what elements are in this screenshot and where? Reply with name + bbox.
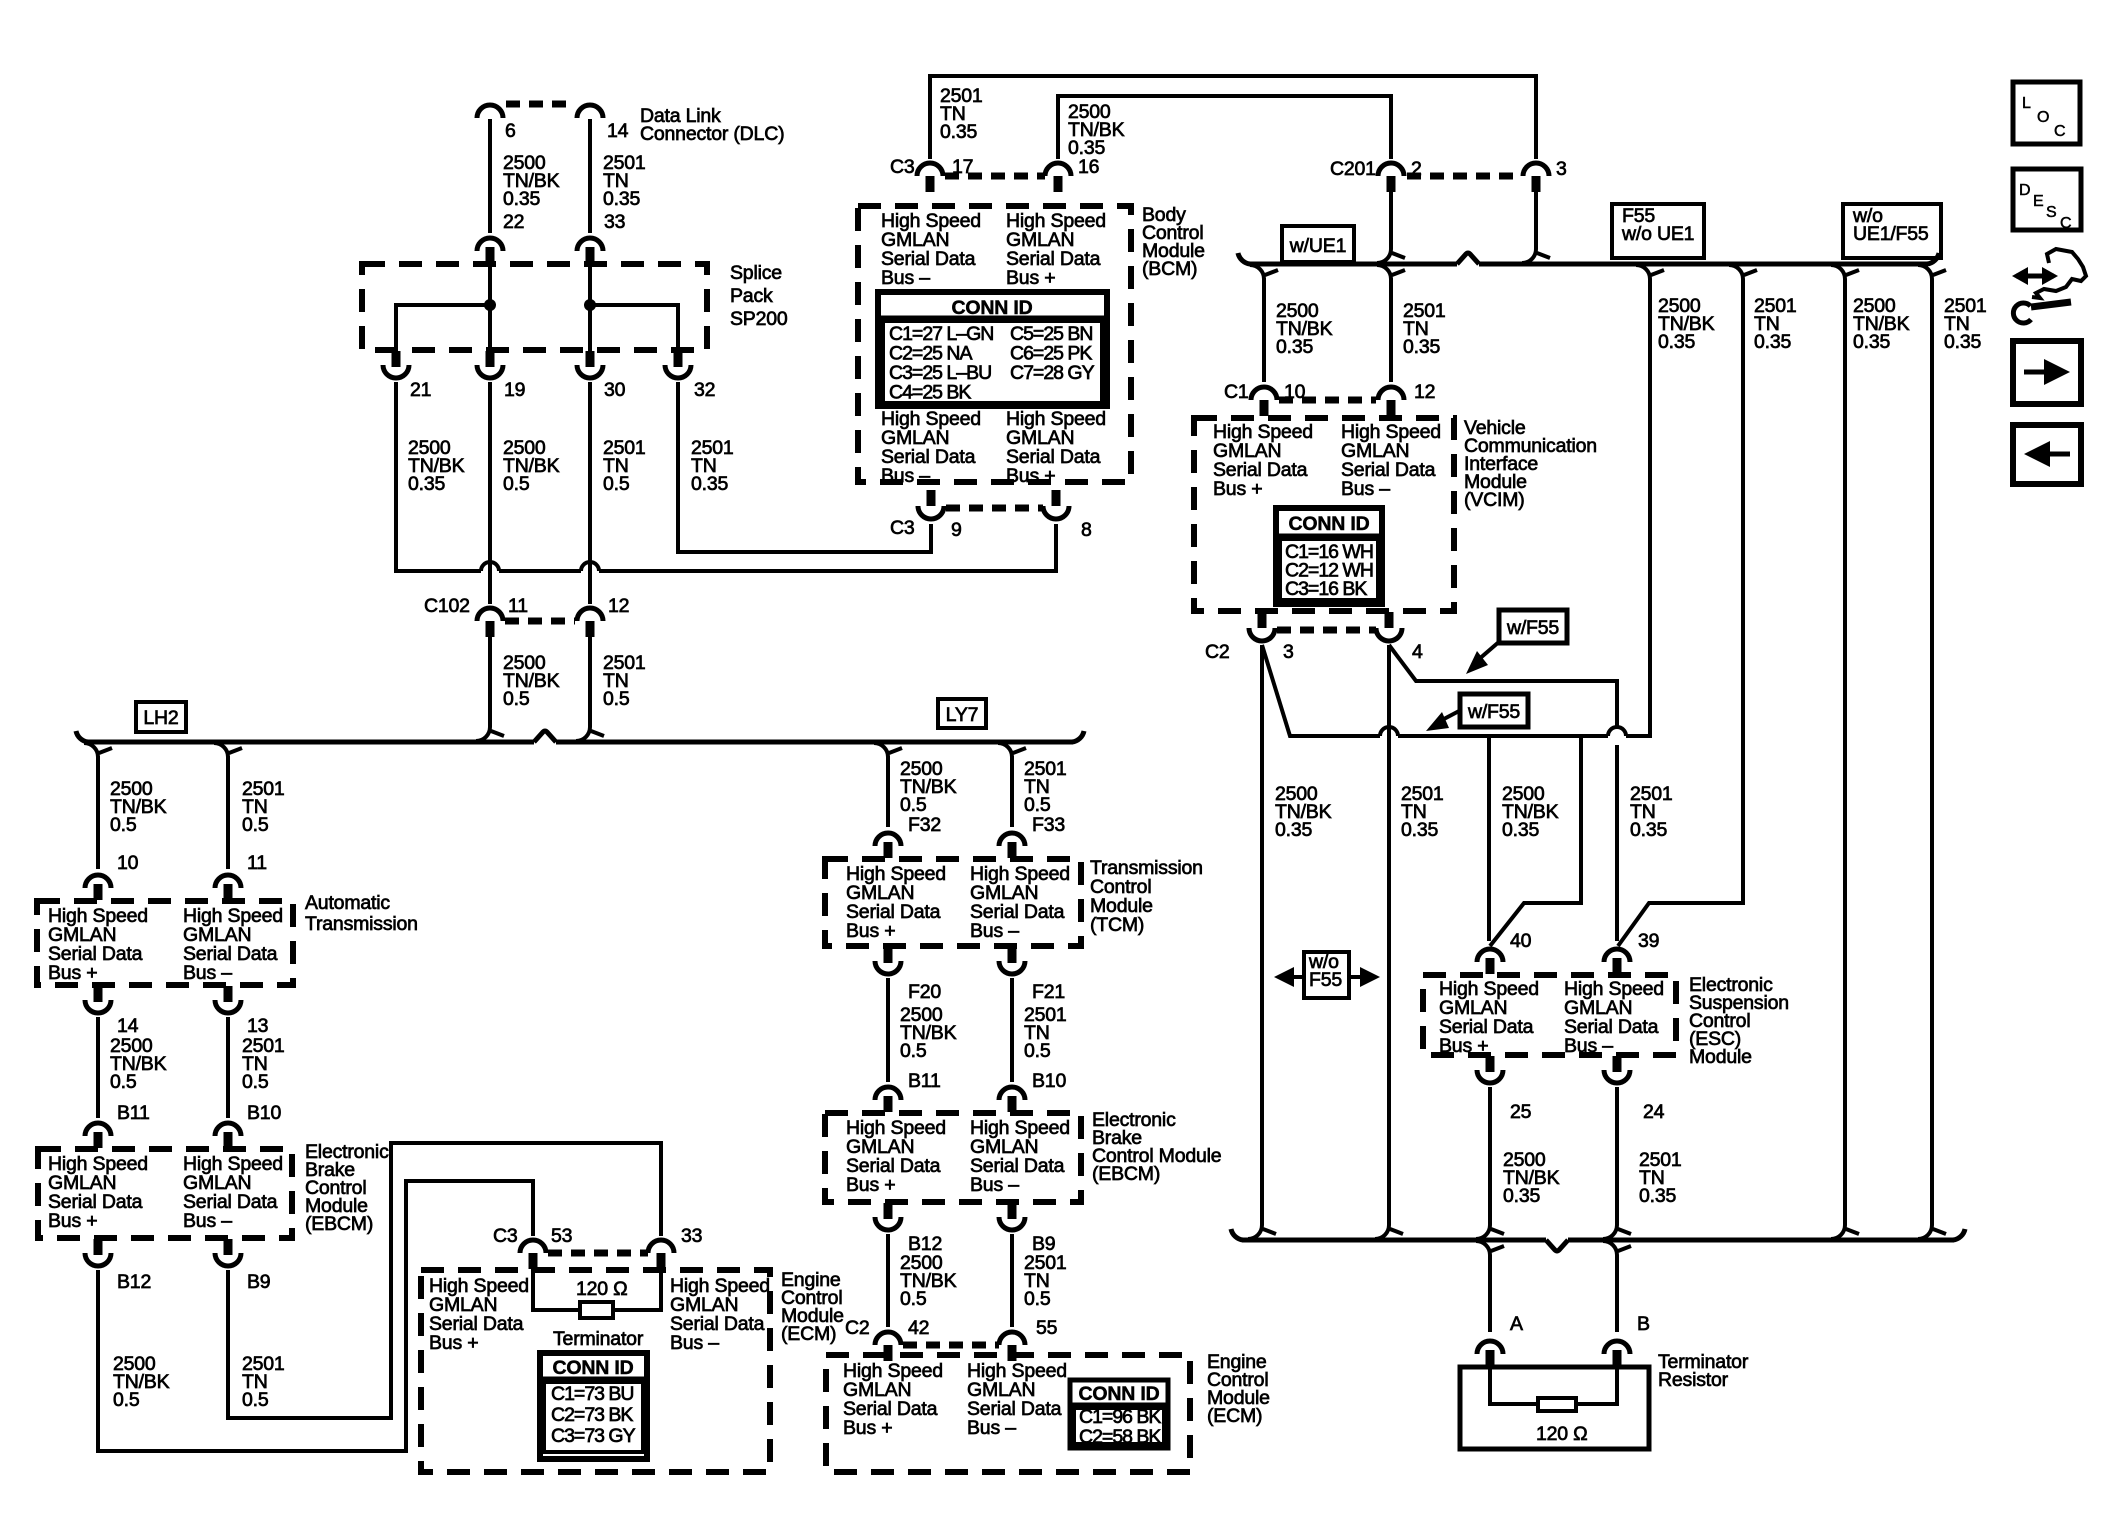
wire 2500 SP200-19 to C102-11 bbox=[488, 382, 492, 604]
svg-text:B10: B10 bbox=[247, 1102, 281, 1124]
connector EBCM pin B9 mid bbox=[1008, 1203, 1017, 1219]
arrow w/F55 upper bbox=[1478, 641, 1500, 660]
svg-text:0.5: 0.5 bbox=[603, 473, 630, 495]
connector ESC pin 25 bbox=[1486, 1056, 1495, 1072]
wire 2501 bus to AT-11 bbox=[226, 756, 230, 869]
svg-text:3: 3 bbox=[1283, 641, 1294, 663]
module ESC box bbox=[1423, 975, 1676, 1055]
svg-text:11: 11 bbox=[508, 595, 528, 617]
svg-text:32: 32 bbox=[694, 379, 715, 401]
svg-text:0.35: 0.35 bbox=[408, 473, 446, 495]
connector ECM C2 pin 55 bbox=[999, 1332, 1025, 1345]
wire 2500 ESC-25 to bottom bus bbox=[1488, 1087, 1492, 1225]
svg-text:LY7: LY7 bbox=[946, 704, 979, 726]
wire 2501 TCM-F21 to EBCM-B10 bbox=[1010, 978, 1014, 1082]
svg-text:C3: C3 bbox=[493, 1225, 518, 1247]
connector ECM C3 pin 33 bbox=[648, 1240, 674, 1253]
wire terminator A to resistor bbox=[1490, 1368, 1538, 1404]
splice pack SP200 box bbox=[362, 264, 707, 350]
svg-text:B11: B11 bbox=[117, 1102, 150, 1124]
label box w/o UE1/F55 bbox=[1843, 204, 1941, 258]
svg-text:(EBCM): (EBCM) bbox=[1092, 1163, 1160, 1185]
svg-text:Bus –: Bus – bbox=[183, 962, 232, 984]
svg-text:C: C bbox=[2060, 215, 2072, 232]
connector SP200 pin 22 bbox=[477, 238, 503, 251]
svg-text:C201: C201 bbox=[1330, 158, 1376, 180]
connector EBCM pin B10 mid bbox=[999, 1087, 1025, 1100]
connector EBCM pin B11 bbox=[85, 1123, 111, 1136]
svg-text:13: 13 bbox=[247, 1015, 268, 1037]
hook VCIM-3 at bottom bus bbox=[1248, 1225, 1262, 1239]
svg-text:B9: B9 bbox=[247, 1271, 270, 1293]
connector BCM C3 pin 16 bbox=[1045, 163, 1071, 176]
wire SP200 22 stub bbox=[488, 263, 492, 305]
hook TCM-F32 at bus bbox=[874, 743, 888, 757]
connector EBCM pin B10 bbox=[215, 1123, 241, 1136]
svg-text:0.5: 0.5 bbox=[900, 1040, 927, 1062]
connector ESC pin 40 bbox=[1477, 949, 1503, 962]
module EBCM mid box bbox=[825, 1113, 1081, 1202]
wire 2500 AT-14 to EBCM-B11 bbox=[96, 1017, 100, 1118]
svg-text:Terminator: Terminator bbox=[553, 1328, 644, 1350]
svg-text:Bus +: Bus + bbox=[846, 920, 895, 942]
connector ECM C3 pin 53 bbox=[520, 1240, 546, 1253]
svg-text:40: 40 bbox=[1510, 930, 1532, 952]
hook C201-2 at bus bbox=[1377, 249, 1391, 263]
svg-text:C1: C1 bbox=[1224, 381, 1249, 403]
svg-text:Bus –: Bus – bbox=[970, 1174, 1019, 1196]
wire SP200 19 stub bbox=[488, 305, 492, 351]
svg-text:(EBCM): (EBCM) bbox=[305, 1213, 373, 1235]
wire 2501 bus to TCM-F33 bbox=[1010, 756, 1014, 827]
module VCIM box bbox=[1194, 418, 1454, 611]
svg-text:Bus +: Bus + bbox=[429, 1332, 478, 1354]
wire 2501 ESC-24 to bottom bus bbox=[1615, 1087, 1619, 1225]
svg-text:O: O bbox=[2037, 109, 2049, 126]
connector BCM C3 dashed face bbox=[945, 173, 1045, 180]
svg-text:C102: C102 bbox=[424, 595, 470, 617]
svg-text:CONN ID: CONN ID bbox=[952, 297, 1033, 319]
module Automatic Transmission box bbox=[37, 901, 293, 985]
label box w/o F55 bbox=[1304, 952, 1349, 998]
svg-text:CONN ID: CONN ID bbox=[1289, 513, 1370, 535]
connector C201 pin 3 bbox=[1523, 163, 1549, 176]
wire 2501 SP200-32 to BCM-9 bbox=[678, 382, 931, 552]
connector ECM C2 pin 42 bbox=[875, 1332, 901, 1345]
svg-text:Bus –: Bus – bbox=[881, 465, 930, 487]
CONN ID table ECM right bbox=[1070, 1380, 1168, 1448]
label box LH2 bbox=[136, 702, 186, 732]
junction SP200 2501 bbox=[584, 299, 596, 311]
icon arrow left box bbox=[2013, 425, 2081, 484]
svg-text:22: 22 bbox=[503, 211, 524, 233]
arrow w/F55 lower bbox=[1442, 710, 1461, 720]
svg-text:Bus –: Bus – bbox=[670, 1332, 719, 1354]
svg-text:0.5: 0.5 bbox=[110, 1071, 137, 1093]
connector EBCM pin B9 bbox=[224, 1239, 233, 1255]
svg-text:9: 9 bbox=[951, 519, 962, 541]
svg-text:SP200: SP200 bbox=[730, 308, 788, 330]
wire 2501 BCM-17 to C201-3 bbox=[930, 76, 1536, 159]
wire 2501 drop to ESC-39 jog bbox=[1618, 279, 1743, 946]
module ECM left box bbox=[421, 1270, 770, 1472]
connector AT pin 11 bbox=[215, 875, 241, 888]
connector SP200 pin 33 bbox=[577, 238, 603, 251]
hook 2501 drop at bus bbox=[1729, 265, 1743, 279]
module TCM box bbox=[825, 859, 1081, 946]
svg-text:C3: C3 bbox=[890, 156, 915, 178]
wire 2501 bus to VCIM-12 bbox=[1389, 278, 1393, 382]
hop w/F55 2500 over VCIM-4 wire bbox=[1380, 727, 1398, 736]
resistor 120 ohm terminator bbox=[1538, 1398, 1576, 1411]
svg-text:w/F55: w/F55 bbox=[1506, 617, 1559, 639]
wire 2501 EBCM-B9 to ECM-55 bbox=[1010, 1234, 1014, 1327]
wire 2500 bus to AT-10 bbox=[96, 756, 100, 869]
connector SP200 pin 19 bbox=[486, 351, 495, 367]
terminator resistor box bbox=[1460, 1367, 1649, 1449]
icon hand with arrow and wrench bbox=[2016, 274, 2054, 279]
connector ECM C3 dashed face bbox=[548, 1250, 648, 1257]
connector AT pin 10 bbox=[85, 875, 111, 888]
wire 2500 SP200-21 to BCM-8 bbox=[396, 382, 481, 571]
svg-text:C2=58 BK: C2=58 BK bbox=[1079, 1426, 1161, 1448]
svg-text:B: B bbox=[1637, 1313, 1650, 1335]
svg-text:Bus +: Bus + bbox=[1006, 267, 1055, 289]
wire 2501 C102-12 to LH2 bus bbox=[588, 637, 592, 727]
label box w/F55 lower bbox=[1460, 694, 1528, 727]
hop w/F55 2500 over 2501 vertical bbox=[1608, 727, 1626, 736]
wire 2500 hop over C102-12 bbox=[581, 562, 599, 571]
svg-text:E: E bbox=[2033, 193, 2044, 210]
svg-text:F20: F20 bbox=[908, 981, 941, 1003]
svg-text:21: 21 bbox=[410, 379, 431, 401]
hook VCIM-4 at bottom bus bbox=[1375, 1225, 1389, 1239]
svg-text:w/F55: w/F55 bbox=[1467, 701, 1520, 723]
svg-text:0.35: 0.35 bbox=[1275, 819, 1313, 841]
wire 2500 branch to ESC-40 bbox=[1487, 736, 1491, 941]
connector SP200 pin 21 bbox=[392, 351, 401, 367]
wire 2501 VCIM-4 to bottom bus bbox=[1387, 645, 1391, 1225]
connector AT pin 13 bbox=[224, 986, 233, 1002]
hook 2501 wo drop top bbox=[1918, 265, 1932, 279]
wire ECM-53 to terminator bbox=[533, 1269, 580, 1310]
svg-text:39: 39 bbox=[1638, 930, 1659, 952]
hook 2500 wo drop bottom bbox=[1831, 1225, 1845, 1239]
connector VCIM C1 pin 10 bbox=[1251, 387, 1277, 400]
svg-text:Bus –: Bus – bbox=[970, 920, 1019, 942]
icon LOC box bbox=[2013, 82, 2080, 144]
connector C102 dashed face bbox=[505, 618, 575, 625]
svg-text:C: C bbox=[2054, 123, 2066, 140]
svg-text:B12: B12 bbox=[117, 1271, 151, 1293]
connector terminator pin B bbox=[1604, 1341, 1630, 1354]
svg-text:0.35: 0.35 bbox=[1853, 331, 1891, 353]
wire SP200 30 stub bbox=[588, 305, 592, 351]
svg-text:42: 42 bbox=[908, 1317, 929, 1339]
bus bottom bbox=[1242, 1238, 1546, 1243]
hook C102-11 at bus bbox=[476, 727, 490, 741]
svg-text:S: S bbox=[2046, 204, 2057, 221]
svg-text:0.5: 0.5 bbox=[603, 688, 630, 710]
svg-text:C2: C2 bbox=[845, 1317, 870, 1339]
wire 2501 DLC-14 to SP200-33 bbox=[588, 119, 592, 233]
hook ESC-25 at bottom bus bbox=[1476, 1225, 1490, 1239]
svg-text:Bus –: Bus – bbox=[881, 267, 930, 289]
svg-text:CONN ID: CONN ID bbox=[553, 1357, 634, 1379]
wire 2500 jog to ESC-40 bbox=[1490, 736, 1581, 946]
svg-text:0.35: 0.35 bbox=[1403, 336, 1441, 358]
svg-text:(VCIM): (VCIM) bbox=[1464, 489, 1525, 511]
wire C201-3 to bus bbox=[1534, 192, 1538, 249]
connector C102 pin 12 bbox=[577, 608, 603, 621]
hook C102-12 at bus bbox=[576, 727, 590, 741]
connector VCIM C2 pin 3 bbox=[1258, 612, 1267, 628]
wire 2500 segment to BCM-8 bbox=[599, 524, 1056, 571]
hook 2501 wo drop bottom bbox=[1918, 1225, 1932, 1239]
svg-text:Module: Module bbox=[1689, 1046, 1752, 1068]
svg-text:0.5: 0.5 bbox=[1024, 794, 1051, 816]
connector VCIM C1 dashed face bbox=[1279, 397, 1376, 404]
svg-text:(BCM): (BCM) bbox=[1142, 258, 1197, 280]
svg-text:Resistor: Resistor bbox=[1658, 1369, 1729, 1391]
wire 2500 BCM-16 to C201-2 bbox=[1058, 96, 1391, 159]
hook AT-10 at bus bbox=[84, 743, 98, 757]
wire 2500 segment bbox=[499, 569, 581, 573]
connector SP200 pin 30 bbox=[586, 351, 595, 367]
svg-text:Transmission: Transmission bbox=[305, 913, 418, 935]
svg-text:C1=73 BU: C1=73 BU bbox=[551, 1383, 634, 1405]
svg-text:120 Ω: 120 Ω bbox=[1536, 1423, 1588, 1445]
wire 2500 w/o UE1/F55 drop bbox=[1843, 279, 1847, 1225]
label box w/F55 upper bbox=[1499, 610, 1567, 643]
svg-text:Bus –: Bus – bbox=[183, 1210, 232, 1232]
arrow w/o F55 double bbox=[1290, 975, 1304, 979]
connector ESC pin 24 bbox=[1613, 1056, 1622, 1072]
svg-text:0.35: 0.35 bbox=[691, 473, 729, 495]
svg-text:Bus +: Bus + bbox=[1213, 478, 1262, 500]
wire 2500 hop over C102-11 bbox=[481, 562, 499, 571]
icon arrow right box bbox=[2013, 341, 2081, 404]
connector BCM C3 bottom dashed face bbox=[946, 505, 1043, 512]
svg-text:0.35: 0.35 bbox=[940, 121, 978, 143]
connector EBCM pin B12 bbox=[94, 1239, 103, 1255]
connector DLC pin 6 bbox=[477, 105, 503, 118]
svg-text:0.35: 0.35 bbox=[603, 188, 641, 210]
wire SP200 33 stub bbox=[588, 263, 592, 305]
svg-text:Automatic: Automatic bbox=[305, 892, 390, 914]
wire 2501 w/o UE1/F55 drop bbox=[1930, 279, 1934, 1225]
hook TCM-F33 at bus bbox=[998, 743, 1012, 757]
connector ECM C2 dashed face bbox=[903, 1342, 999, 1349]
hook C201-3 at bus bbox=[1522, 249, 1536, 263]
svg-text:w/UE1: w/UE1 bbox=[1289, 235, 1346, 257]
svg-text:3: 3 bbox=[1556, 158, 1567, 180]
connector EBCM pin B11 mid bbox=[875, 1087, 901, 1100]
svg-text:0.35: 0.35 bbox=[1944, 331, 1982, 353]
bus LH2/LY7 bbox=[87, 740, 534, 745]
wire bus to terminator B bbox=[1615, 1255, 1619, 1332]
svg-text:C3=73 GY: C3=73 GY bbox=[551, 1425, 636, 1447]
svg-text:0.5: 0.5 bbox=[110, 814, 137, 836]
svg-text:25: 25 bbox=[1510, 1101, 1532, 1123]
svg-text:w/o UE1: w/o UE1 bbox=[1621, 223, 1694, 245]
hook 2500 wo drop top bbox=[1831, 265, 1845, 279]
wire SP200 2501 internal bbox=[590, 305, 678, 349]
connector C102 pin 11 bbox=[477, 608, 503, 621]
wire w/F55 2500 mid bbox=[1398, 734, 1608, 738]
svg-text:Bus –: Bus – bbox=[967, 1417, 1016, 1439]
svg-text:LH2: LH2 bbox=[143, 707, 178, 729]
svg-text:53: 53 bbox=[551, 1225, 572, 1247]
hook 2500 drop at bus bbox=[1636, 265, 1650, 279]
connector SP200 pin 32 bbox=[674, 351, 683, 367]
wire w/F55 2501 from VCIM-4 bbox=[1389, 645, 1617, 727]
svg-text:Splice: Splice bbox=[730, 262, 782, 284]
connector ESC pin 39 bbox=[1604, 949, 1630, 962]
label box LY7 bbox=[938, 699, 986, 728]
connector VCIM C2 dashed face bbox=[1277, 627, 1376, 634]
CONN ID table VCIM bbox=[1276, 508, 1382, 604]
svg-text:Bus –: Bus – bbox=[1564, 1035, 1613, 1057]
module EBCM left box bbox=[38, 1149, 292, 1238]
svg-text:CONN ID: CONN ID bbox=[1079, 1383, 1160, 1405]
wire terminator B to resistor bbox=[1576, 1368, 1617, 1404]
wire ECM-33 to terminator bbox=[613, 1269, 661, 1310]
svg-text:Bus +: Bus + bbox=[1439, 1035, 1488, 1057]
svg-text:4: 4 bbox=[1412, 641, 1423, 663]
svg-text:(TCM): (TCM) bbox=[1090, 914, 1144, 936]
svg-text:0.35: 0.35 bbox=[1754, 331, 1792, 353]
svg-text:D: D bbox=[2019, 182, 2031, 199]
svg-text:0.5: 0.5 bbox=[503, 688, 530, 710]
svg-text:B10: B10 bbox=[1032, 1070, 1066, 1092]
connector terminator pin A bbox=[1477, 1341, 1503, 1354]
wire 2500 bus to TCM-F32 bbox=[886, 756, 890, 827]
label box F55 w/o UE1 bbox=[1612, 204, 1704, 258]
svg-text:Bus –: Bus – bbox=[1341, 478, 1390, 500]
wire bus to terminator A bbox=[1488, 1255, 1492, 1332]
connector TCM pin F21 bbox=[1008, 947, 1017, 963]
resistor 120 ohm terminator ECM bbox=[580, 1302, 613, 1318]
connector DLC dashed face bbox=[506, 101, 574, 108]
wire w/F55 2500 to top drop bbox=[1626, 279, 1650, 736]
svg-text:12: 12 bbox=[1414, 381, 1435, 403]
svg-text:A: A bbox=[1510, 1313, 1523, 1335]
svg-text:6: 6 bbox=[505, 120, 516, 142]
svg-text:14: 14 bbox=[117, 1015, 139, 1037]
svg-text:0.5: 0.5 bbox=[900, 794, 927, 816]
svg-text:0.5: 0.5 bbox=[900, 1288, 927, 1310]
svg-text:0.35: 0.35 bbox=[1401, 819, 1439, 841]
module BCM box bbox=[858, 206, 1131, 482]
svg-text:12: 12 bbox=[608, 595, 629, 617]
connector DLC pin 14 bbox=[577, 105, 603, 118]
svg-text:Bus +: Bus + bbox=[48, 1210, 97, 1232]
svg-text:11: 11 bbox=[247, 852, 267, 874]
svg-text:0.5: 0.5 bbox=[242, 814, 269, 836]
connector TCM pin F20 bbox=[884, 947, 893, 963]
svg-text:10: 10 bbox=[117, 852, 139, 874]
svg-text:C2=73 BK: C2=73 BK bbox=[551, 1404, 633, 1426]
svg-text:Bus +: Bus + bbox=[1006, 465, 1055, 487]
svg-text:0.35: 0.35 bbox=[1276, 336, 1314, 358]
svg-text:Bus +: Bus + bbox=[48, 962, 97, 984]
svg-text:0.5: 0.5 bbox=[242, 1389, 269, 1411]
connector C201 pin 2 bbox=[1378, 163, 1404, 176]
wire w/F55 2500 from VCIM-3 bbox=[1262, 645, 1380, 736]
svg-text:0.35: 0.35 bbox=[1503, 1185, 1541, 1207]
svg-text:C2: C2 bbox=[1205, 641, 1230, 663]
wire SP200 2500 internal bbox=[396, 305, 490, 349]
svg-text:120 Ω: 120 Ω bbox=[576, 1278, 628, 1300]
svg-text:19: 19 bbox=[504, 379, 525, 401]
hook AT-11 at bus bbox=[214, 743, 228, 757]
svg-text:C7=28 GY: C7=28 GY bbox=[1010, 362, 1095, 384]
svg-text:0.35: 0.35 bbox=[503, 188, 541, 210]
svg-text:0.5: 0.5 bbox=[1024, 1288, 1051, 1310]
svg-text:F55: F55 bbox=[1309, 969, 1342, 991]
svg-text:8: 8 bbox=[1081, 519, 1092, 541]
svg-text:F21: F21 bbox=[1032, 981, 1065, 1003]
wire C201-2 to bus bbox=[1389, 192, 1393, 249]
wire 2501 vertical to ESC-39 bbox=[1615, 745, 1619, 941]
svg-text:C3: C3 bbox=[890, 517, 915, 539]
icon DESC box bbox=[2013, 169, 2081, 230]
svg-text:C3=16 BK: C3=16 BK bbox=[1285, 578, 1367, 600]
wire 2500 bus to VCIM-10 bbox=[1262, 278, 1266, 382]
svg-text:(ECM): (ECM) bbox=[1207, 1405, 1262, 1427]
connector TCM pin F33 bbox=[999, 833, 1025, 846]
svg-text:0.5: 0.5 bbox=[242, 1071, 269, 1093]
CONN ID table ECM left bbox=[540, 1353, 647, 1459]
wire 2500 VCIM-3 to bottom bus bbox=[1260, 645, 1264, 1225]
svg-text:UE1/F55: UE1/F55 bbox=[1853, 223, 1929, 245]
wire 2501 SP200-30 to C102-12 bbox=[588, 382, 592, 604]
connector TCM pin F32 bbox=[875, 833, 901, 846]
svg-text:L: L bbox=[2022, 95, 2031, 112]
svg-text:F33: F33 bbox=[1032, 814, 1065, 836]
wire 2500 EBCM-B12 to ECM-42 bbox=[886, 1234, 890, 1327]
svg-text:0.5: 0.5 bbox=[113, 1389, 140, 1411]
CONN ID table BCM bbox=[878, 292, 1107, 406]
hook ESC-24 at bottom bus bbox=[1603, 1225, 1617, 1239]
connector BCM C3 pin 8 bbox=[1052, 490, 1061, 506]
svg-text:Pack: Pack bbox=[730, 285, 773, 307]
svg-text:14: 14 bbox=[607, 120, 629, 142]
hook terminator B at bus bbox=[1603, 1241, 1617, 1255]
svg-text:0.35: 0.35 bbox=[1502, 819, 1540, 841]
svg-text:30: 30 bbox=[604, 379, 626, 401]
connector VCIM C2 pin 4 bbox=[1385, 612, 1394, 628]
bus w/UE1 bbox=[1249, 262, 1457, 267]
wire 2500 EBCM-B12 to ECM-53 bbox=[98, 1181, 533, 1451]
wire 2500 DLC-6 to SP200-22 bbox=[488, 119, 492, 233]
connector AT pin 14 bbox=[94, 986, 103, 1002]
junction SP200 2500 bbox=[484, 299, 496, 311]
svg-text:0.5: 0.5 bbox=[503, 473, 530, 495]
connector VCIM C1 pin 12 bbox=[1378, 387, 1404, 400]
svg-text:24: 24 bbox=[1643, 1101, 1665, 1123]
label box w/UE1 bbox=[1282, 226, 1354, 262]
hook VCIM-10 at bus bbox=[1250, 265, 1264, 279]
svg-text:0.35: 0.35 bbox=[1658, 331, 1696, 353]
svg-text:B11: B11 bbox=[908, 1070, 941, 1092]
svg-text:0.35: 0.35 bbox=[1630, 819, 1668, 841]
svg-text:33: 33 bbox=[681, 1225, 702, 1247]
wire 2501 AT-13 to EBCM-B10 bbox=[226, 1017, 230, 1118]
hook terminator A at bus bbox=[1476, 1241, 1490, 1255]
connector BCM C3 pin 9 bbox=[927, 490, 936, 506]
